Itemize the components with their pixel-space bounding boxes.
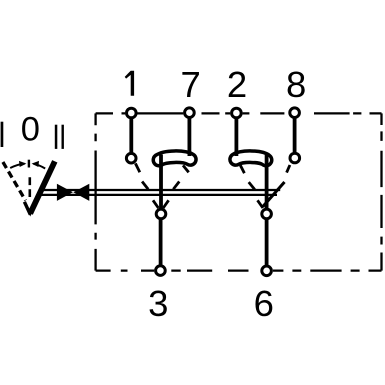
actuator rod lower line — [40, 194, 277, 196]
tick below bridge 7 — [183, 165, 189, 172]
wire to terminal 6 — [265, 220, 269, 267]
svg-text:3: 3 — [148, 283, 168, 324]
enclosure border: bottom edge (dash-dot) — [96, 269, 382, 271]
contact bridge under terminal 7 — [159, 157, 190, 160]
left curved arrow tail — [10, 164, 24, 168]
svg-text:2: 2 — [227, 64, 247, 105]
terminal 1 circle — [127, 108, 137, 118]
lever (position II, engaged) — [30, 161, 55, 213]
contact tick below circle 1 — [135, 163, 139, 172]
fixed contact circle below terminal 1 — [126, 153, 136, 163]
contact bridge under terminal 2 — [236, 157, 266, 160]
position label II bar 2 — [62, 125, 64, 149]
enclosure border: right edge (dash-dot) — [380, 113, 382, 270]
svg-text:7: 7 — [180, 64, 200, 105]
terminal 6 circle — [262, 266, 272, 276]
wire to terminal 3 — [159, 220, 163, 267]
rod-end diagonal at contact 6 — [263, 182, 285, 207]
wire from terminal 8 — [293, 119, 297, 153]
tick below bridge 2 — [240, 165, 244, 173]
dashed center line to position 0 — [28, 177, 31, 197]
stem from bridge 7 to movable contact — [159, 155, 163, 210]
contact tick below circle 8 — [287, 165, 290, 173]
terminal 3 circle — [156, 266, 166, 276]
detent symbol left triangle — [57, 184, 73, 201]
enclosure border: top edge (dash-dot) — [96, 112, 382, 114]
terminal 2 circle — [232, 108, 242, 118]
actuator rod upper line — [40, 189, 280, 191]
wire from terminal 2 into bridge — [234, 119, 238, 157]
terminal 7 circle — [185, 108, 195, 118]
position label II bar 1 — [55, 125, 58, 149]
right curved arrow tail — [34, 164, 46, 169]
upper-left tick at contact 6 — [249, 182, 255, 190]
upper-right tick at contact 3 — [173, 182, 179, 190]
svg-text:6: 6 — [254, 283, 274, 324]
contact fork left arm at contact 3 — [153, 200, 158, 208]
pivot tip — [27, 210, 33, 217]
right curved arrow head — [32, 161, 39, 167]
position label I (clipped at left edge) — [1, 122, 4, 147]
pivot chevron left arm — [24, 202, 30, 215]
detent symbol right triangle — [73, 184, 89, 201]
movable contact pivot circle (to terminal 6) — [262, 209, 272, 219]
svg-text:0: 0 — [21, 111, 40, 149]
label terminal 1 — [125, 71, 134, 96]
upper-left tick at contact 3 — [142, 182, 148, 190]
position 0 tick on arc — [28, 160, 30, 168]
contact fork right arm at contact 3 — [163, 200, 168, 208]
stem from bridge 2 to movable contact — [265, 155, 269, 210]
fixed contact circle below terminal 8 — [290, 153, 300, 163]
wire from terminal 7 into bridge — [187, 119, 191, 157]
svg-text:8: 8 — [286, 64, 306, 105]
terminal 8 circle — [290, 108, 300, 118]
contact fork left arm at contact 6 — [258, 200, 263, 208]
movable contact pivot circle (to terminal 3) — [156, 209, 166, 219]
enclosure border: left edge (dash-dot) — [94, 113, 96, 270]
left curved arrow head — [19, 161, 26, 167]
dashed lever ghost to position I — [3, 162, 26, 201]
wire from terminal 1 — [129, 119, 133, 153]
